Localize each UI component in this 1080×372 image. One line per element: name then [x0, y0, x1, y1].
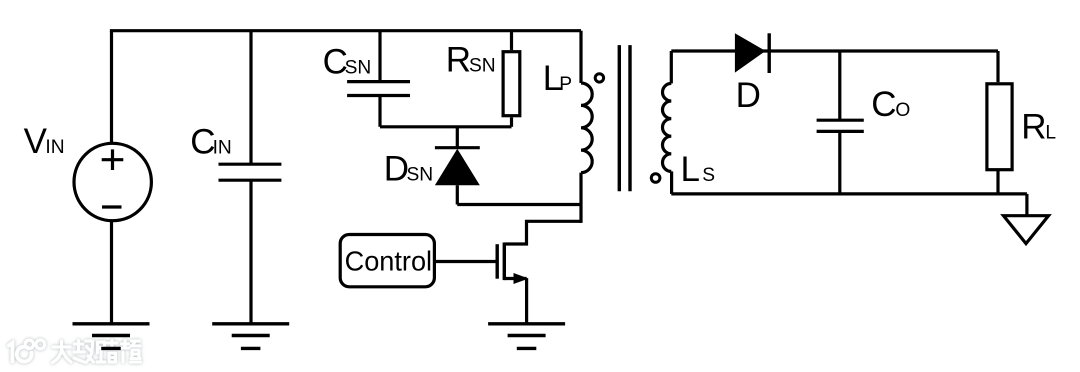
- svg-text:IN: IN: [213, 137, 232, 158]
- svg-text:D: D: [736, 76, 761, 115]
- wire RSN bottom: [510, 117, 513, 127]
- ground earth triangle: [1004, 216, 1049, 244]
- transistor Q1 (MOSFET): [497, 243, 528, 324]
- wire LP bottom: [579, 173, 582, 223]
- svg-text:S: S: [702, 165, 715, 186]
- svg-text:SN: SN: [407, 164, 434, 185]
- resistor R1 (RSN): [503, 31, 520, 127]
- capacitor C2 (CSN): [347, 31, 410, 127]
- label CSN: [323, 43, 372, 82]
- capacitor C1 (CIN): [219, 31, 282, 324]
- wire source down: [525, 279, 528, 324]
- svg-text:R: R: [1021, 108, 1046, 147]
- svg-text:D: D: [384, 149, 409, 188]
- svg-text:R: R: [446, 40, 471, 79]
- label CO: [871, 85, 910, 124]
- capacitor C3 (CO): [817, 51, 864, 194]
- label LP: [543, 59, 572, 98]
- svg-text:O: O: [895, 100, 910, 121]
- svg-text:V: V: [24, 122, 48, 161]
- wire snubber bottom: [380, 125, 512, 128]
- svg-text:Control: Control: [345, 246, 433, 277]
- wire to earth: [1025, 194, 1028, 216]
- wire LP top: [579, 31, 582, 83]
- channel bar: [503, 243, 506, 281]
- wire output top rail: [671, 49, 998, 52]
- wire DSN to drain node: [457, 203, 581, 206]
- diode D1 (DSN): [435, 127, 480, 205]
- transformer core: [619, 45, 630, 191]
- label DSN: [384, 149, 433, 188]
- svg-text:SN: SN: [469, 55, 496, 76]
- label RSN: [446, 40, 496, 79]
- inductor L1 (LP primary winding): [581, 31, 592, 223]
- ground (MOSFET source): [488, 324, 565, 349]
- svg-text:IN: IN: [45, 137, 64, 158]
- resistor R2 (RL): [987, 51, 1012, 194]
- diode D2 (output diode D): [735, 33, 769, 73]
- label CIN: [190, 122, 231, 161]
- svg-text:SN: SN: [345, 58, 372, 79]
- wire DSN anode stub: [456, 185, 459, 204]
- wire VIN top: [110, 31, 113, 143]
- wire LS bottom: [670, 171, 673, 194]
- node LP polarity dot: [595, 74, 603, 82]
- wire CSN top: [378, 31, 381, 82]
- wire CIN bottom: [249, 180, 252, 324]
- wire CO bottom: [838, 131, 841, 194]
- wire VIN bottom: [110, 221, 113, 324]
- wire top rail primary side: [110, 29, 581, 32]
- svg-text:L: L: [681, 150, 700, 189]
- wire RL bottom: [996, 170, 999, 194]
- gate bar: [496, 244, 499, 279]
- control block U1: [340, 235, 434, 287]
- wire RSN top: [510, 31, 513, 50]
- source wire with arrow: [504, 277, 526, 280]
- svg-text:P: P: [559, 74, 572, 95]
- wire DSN cathode stub: [456, 127, 459, 148]
- wire CIN top: [249, 31, 252, 165]
- label VIN: [24, 122, 65, 161]
- ground (VIN): [73, 324, 150, 349]
- wire CSN bottom: [378, 96, 381, 127]
- wire RL top: [996, 51, 999, 82]
- wire gate: [434, 260, 495, 263]
- wire CO top: [838, 51, 841, 120]
- wire drain connection: [504, 221, 581, 244]
- wire output bottom rail: [671, 192, 1027, 195]
- wire LS top: [670, 51, 673, 83]
- inductor L2 (LS secondary winding): [663, 51, 672, 194]
- svg-text:L: L: [1045, 123, 1056, 144]
- voltage source V1 (VIN): [74, 31, 151, 324]
- watermark logo and text: [9, 340, 141, 363]
- label LS: [681, 150, 716, 189]
- label RL: [1021, 108, 1056, 147]
- ground (CIN): [212, 324, 289, 349]
- node LS polarity dot: [651, 174, 660, 183]
- svg-text:C: C: [871, 85, 896, 124]
